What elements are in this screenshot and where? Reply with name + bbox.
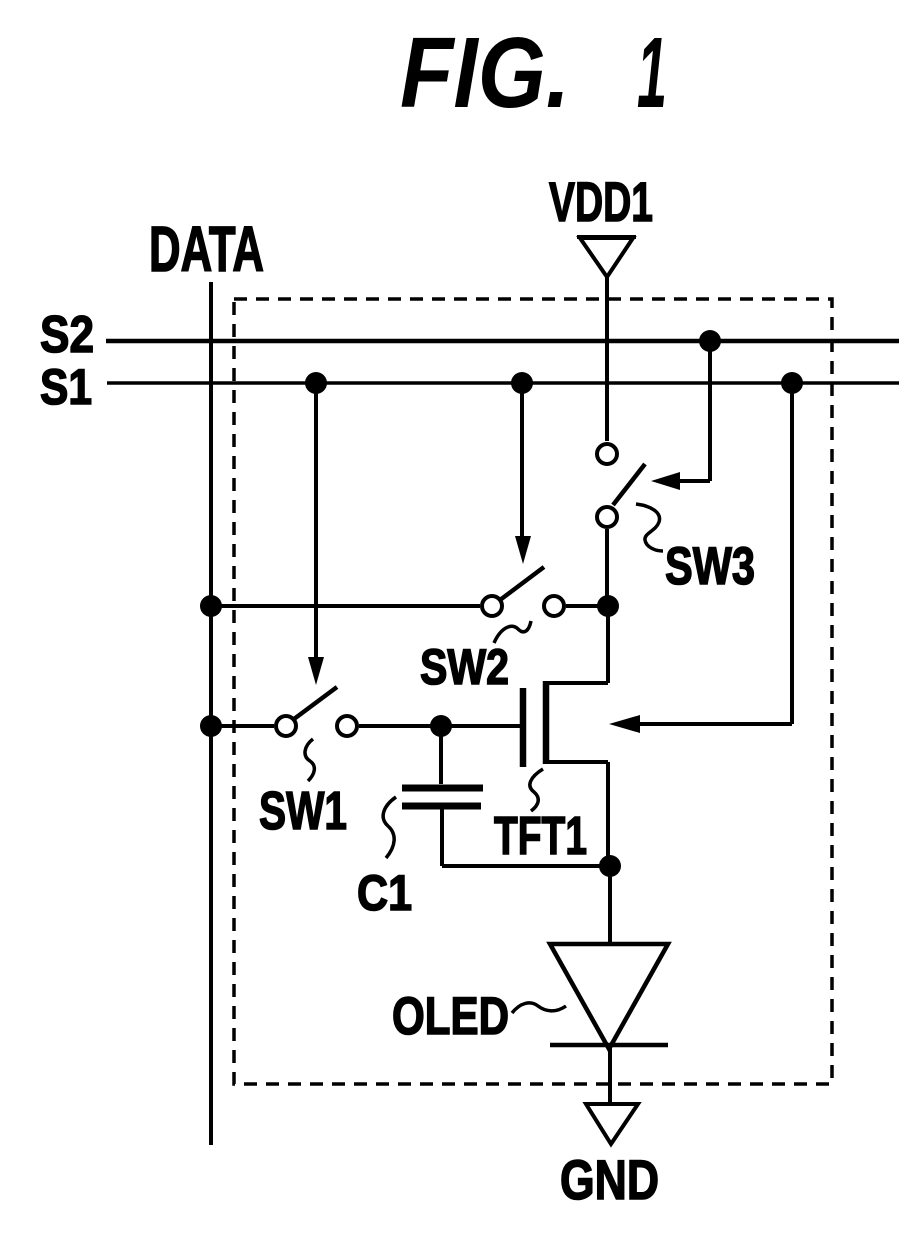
control arrow S1 to SW2 — [515, 383, 531, 564]
title FIG. 1 — [400, 17, 667, 129]
svg-text:GND: GND — [560, 1148, 659, 1211]
junction on S1 right — [781, 372, 803, 394]
junction DATA-SW2 — [200, 595, 222, 617]
wire SW3 to node B — [605, 529, 609, 606]
lead line squiggle TFT1 — [530, 769, 543, 811]
ground symbol — [586, 1104, 638, 1144]
wire S1 scan line — [107, 381, 899, 385]
transistor TFT1 — [523, 606, 608, 866]
lead line squiggle SW3 — [636, 504, 663, 551]
wire C1 to TFT1 source — [442, 864, 610, 868]
lead line squiggle SW1 — [305, 739, 314, 781]
junction node B — [597, 595, 619, 617]
svg-text:VDD1: VDD1 — [549, 170, 653, 233]
svg-text:SW3: SW3 — [665, 537, 755, 596]
wire DATA to SW1 — [211, 724, 274, 728]
wire S2 scan line — [106, 339, 899, 344]
svg-text:SW2: SW2 — [420, 639, 509, 695]
wire DATA column line — [209, 282, 213, 1145]
svg-text:S2: S2 — [40, 306, 94, 364]
svg-text:TFT1: TFT1 — [494, 806, 587, 866]
switch SW3 — [597, 444, 645, 527]
switch SW1 — [276, 687, 357, 736]
svg-text:1: 1 — [637, 17, 667, 129]
svg-text:C1: C1 — [357, 865, 412, 921]
switch SW2 — [482, 567, 564, 616]
wire DATA to SW2 — [211, 604, 480, 608]
junction on S1 middle — [511, 372, 533, 394]
wire to OLED — [608, 866, 612, 944]
wire VDD1 to SW3 — [605, 277, 609, 441]
lead line squiggle OLED — [512, 1003, 566, 1013]
svg-text:OLED: OLED — [392, 987, 509, 1046]
svg-text:FIG.: FIG. — [400, 17, 570, 129]
junction TFT1 source node — [599, 855, 621, 877]
lead line squiggle SW2 — [494, 621, 531, 643]
junction on S1 left — [305, 372, 327, 394]
junction node A (C1 top) — [430, 715, 452, 737]
control arrow S1 to TFT1 — [609, 383, 792, 733]
svg-text:S1: S1 — [40, 359, 92, 415]
capacitor C1 — [402, 726, 483, 866]
wire SW1 to TFT1 gate — [359, 724, 520, 728]
pixel cell boundary (dashed) — [234, 299, 832, 1084]
svg-text:SW1: SW1 — [259, 781, 347, 841]
control arrow S2 to SW3 — [651, 341, 710, 490]
junction on S2 — [699, 330, 721, 352]
wire OLED to GND — [608, 1045, 612, 1104]
svg-text:DATA: DATA — [149, 213, 264, 285]
diode OLED — [550, 944, 668, 1049]
control arrow S1 to SW1 — [308, 383, 324, 685]
lead line squiggle C1 — [383, 797, 396, 858]
wire SW2 to node B — [566, 604, 606, 608]
power symbol VDD1 — [580, 238, 633, 277]
junction DATA-SW1 — [200, 715, 222, 737]
